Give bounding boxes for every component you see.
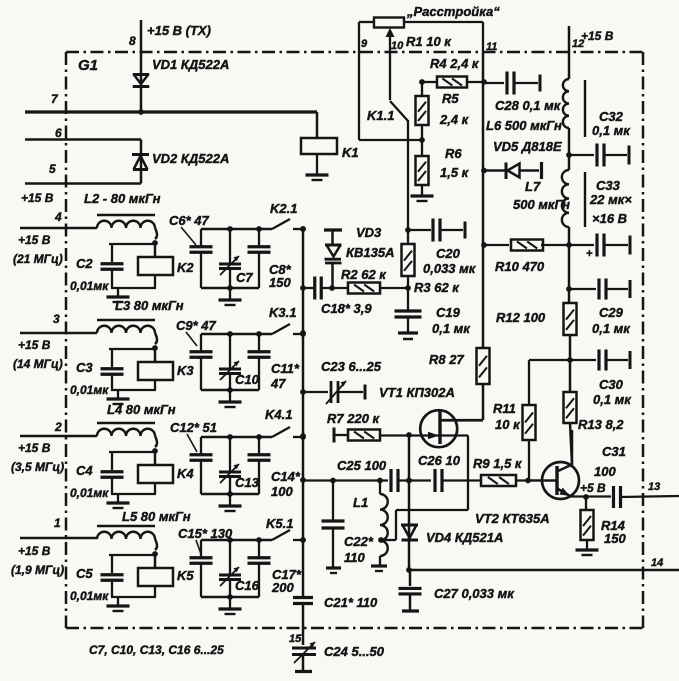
svg-text:R11: R11	[493, 401, 516, 416]
svg-text:„Расстройка“: „Расстройка“	[406, 4, 500, 19]
svg-text:C31: C31	[602, 444, 626, 459]
svg-text:L6 500 мкГн: L6 500 мкГн	[486, 118, 562, 133]
svg-text:C4: C4	[76, 463, 93, 478]
svg-text:VT1 КП302А: VT1 КП302А	[379, 385, 455, 400]
svg-text:15: 15	[289, 633, 302, 645]
svg-text:200: 200	[271, 580, 294, 595]
svg-text:22 мк×: 22 мк×	[589, 192, 632, 207]
svg-text:+5 В: +5 В	[580, 481, 606, 495]
svg-text:C7: C7	[236, 270, 253, 285]
svg-text:C21* 110: C21* 110	[324, 595, 378, 610]
svg-text:K3: K3	[177, 363, 194, 378]
svg-text:C3: C3	[76, 360, 93, 375]
svg-text:C5: C5	[76, 566, 93, 581]
svg-text:K5: K5	[177, 568, 194, 583]
svg-text:0,01мк: 0,01мк	[70, 486, 109, 500]
svg-text:VD2 КД522А: VD2 КД522А	[152, 151, 229, 166]
svg-text:0,1 мк: 0,1 мк	[592, 123, 631, 138]
svg-text:VD1 КД522А: VD1 КД522А	[152, 57, 229, 72]
svg-text:0,033 мк: 0,033 мк	[423, 261, 477, 276]
svg-text:C30: C30	[599, 377, 624, 392]
svg-text:+15 В: +15 В	[18, 233, 51, 247]
svg-text:C11*: C11*	[271, 361, 300, 376]
svg-text:47: 47	[270, 376, 286, 391]
svg-text:R12 100: R12 100	[496, 310, 546, 325]
svg-text:C28 0,1 мк: C28 0,1 мк	[495, 98, 562, 113]
svg-text:C23 6...25: C23 6...25	[321, 359, 382, 374]
svg-text:R13 8,2: R13 8,2	[578, 417, 624, 432]
svg-text:C15* 130: C15* 130	[178, 526, 233, 541]
svg-text:100: 100	[271, 484, 293, 499]
svg-text:L1: L1	[353, 495, 368, 510]
svg-text:R10 470: R10 470	[495, 259, 545, 274]
svg-text:C14*: C14*	[271, 469, 301, 484]
svg-text:R2 62 к: R2 62 к	[341, 267, 387, 282]
svg-text:×16 В: ×16 В	[592, 211, 627, 226]
svg-text:C18* 3,9: C18* 3,9	[321, 301, 372, 316]
svg-text:1: 1	[54, 516, 61, 530]
svg-text:C20: C20	[436, 246, 461, 261]
svg-text:0,01мк: 0,01мк	[70, 589, 109, 603]
svg-text:+15 В: +15 В	[18, 441, 51, 455]
svg-text:11: 11	[486, 41, 497, 53]
svg-text:4: 4	[54, 210, 62, 224]
svg-text:0,01мк: 0,01мк	[70, 383, 109, 397]
svg-text:C13: C13	[235, 475, 260, 490]
svg-text:R5: R5	[442, 91, 459, 106]
svg-text:1,5 к: 1,5 к	[440, 165, 470, 180]
svg-text:R3 62 к: R3 62 к	[414, 280, 460, 295]
svg-text:C24 5...50: C24 5...50	[324, 644, 385, 659]
svg-text:C33: C33	[596, 178, 621, 193]
svg-text:K5.1: K5.1	[266, 516, 293, 531]
svg-text:C10: C10	[235, 372, 260, 387]
svg-text:VD5 Д818Е: VD5 Д818Е	[493, 139, 562, 154]
svg-text:R9 1,5 к: R9 1,5 к	[473, 456, 523, 471]
svg-text:100: 100	[594, 464, 616, 479]
svg-text:VD4 КД521А: VD4 КД521А	[426, 530, 503, 545]
svg-text:K3.1: K3.1	[269, 305, 296, 320]
svg-text:K2: K2	[177, 260, 194, 275]
svg-text:2: 2	[54, 420, 62, 434]
svg-text:150: 150	[269, 275, 291, 290]
svg-text:L2 - 80 мкГн: L2 - 80 мкГн	[84, 191, 161, 206]
svg-text:C25 100: C25 100	[337, 458, 387, 473]
svg-text:КВ135А: КВ135А	[346, 245, 394, 260]
svg-text:0,1 мк: 0,1 мк	[592, 321, 631, 336]
svg-text:K4: K4	[177, 466, 194, 481]
svg-text:10 к: 10 к	[495, 417, 521, 432]
svg-text:(3,5 МГц): (3,5 МГц)	[11, 460, 64, 474]
svg-text:C9* 47: C9* 47	[176, 318, 217, 333]
svg-text:C19: C19	[436, 305, 461, 320]
svg-text:9: 9	[361, 38, 368, 50]
svg-text:C2: C2	[76, 256, 93, 271]
svg-text:R1 10 к: R1 10 к	[406, 34, 452, 49]
svg-text:6: 6	[55, 126, 62, 140]
svg-text:L3 80 мкГн: L3 80 мкГн	[115, 298, 184, 313]
svg-text:R8 27: R8 27	[429, 352, 464, 367]
svg-text:VT2 КТ635А: VT2 КТ635А	[475, 511, 550, 526]
svg-text:+15 В: +15 В	[18, 544, 51, 558]
svg-text:+15 В (ТХ): +15 В (ТХ)	[147, 23, 211, 38]
svg-text:G1: G1	[78, 57, 98, 74]
svg-text:C27 0,033 мк: C27 0,033 мк	[434, 586, 515, 601]
svg-text:K2.1: K2.1	[270, 201, 297, 216]
svg-text:K1: K1	[342, 145, 359, 160]
svg-text:(21 МГц): (21 МГц)	[13, 252, 63, 266]
svg-text:R4 2,4 к: R4 2,4 к	[430, 56, 480, 71]
svg-text:L5 80 мкГн: L5 80 мкГн	[122, 509, 191, 524]
svg-text:500 мкГн: 500 мкГн	[513, 197, 570, 212]
svg-text:C26 10: C26 10	[418, 453, 461, 468]
svg-text:L4 80 мкГн: L4 80 мкГн	[107, 402, 176, 417]
svg-text:0,01мк: 0,01мк	[70, 279, 109, 293]
svg-text:(1,9 МГц): (1,9 МГц)	[11, 563, 64, 577]
svg-text:+15 В: +15 В	[21, 191, 54, 205]
svg-text:R6: R6	[445, 146, 462, 161]
svg-text:14: 14	[651, 557, 663, 569]
svg-text:(14 МГц): (14 МГц)	[13, 357, 63, 371]
svg-text:150: 150	[604, 531, 626, 546]
svg-text:C22*: C22*	[344, 534, 374, 549]
svg-text:C29: C29	[599, 305, 624, 320]
svg-text:+15 В: +15 В	[581, 29, 614, 43]
svg-text:+15 В: +15 В	[18, 338, 51, 352]
svg-text:8: 8	[129, 34, 136, 48]
svg-text:+: +	[586, 248, 593, 260]
svg-text:K4.1: K4.1	[265, 407, 292, 422]
svg-text:L7: L7	[525, 179, 541, 194]
svg-text:5: 5	[49, 162, 56, 176]
svg-text:0,1 мк: 0,1 мк	[432, 321, 471, 336]
svg-text:C32: C32	[599, 109, 624, 124]
svg-text:VD3: VD3	[356, 225, 382, 240]
svg-text:C7, C10, C13, C16 6...25: C7, C10, C13, C16 6...25	[89, 643, 224, 657]
svg-text:С6* 47: С6* 47	[169, 213, 210, 228]
svg-text:R7 220 к: R7 220 к	[327, 411, 381, 426]
svg-text:K1.1: K1.1	[367, 108, 394, 123]
svg-text:C12* 51: C12* 51	[170, 420, 217, 435]
svg-text:110: 110	[344, 550, 365, 565]
svg-text:2,4 к: 2,4 к	[439, 112, 470, 127]
svg-text:10: 10	[391, 40, 404, 52]
svg-text:C16: C16	[235, 578, 260, 593]
svg-text:0,1 мк: 0,1 мк	[593, 392, 632, 407]
svg-text:3: 3	[53, 312, 60, 326]
svg-text:13: 13	[648, 481, 660, 493]
